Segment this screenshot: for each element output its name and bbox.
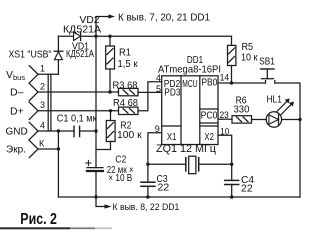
svg-text:D+: D+ <box>10 106 24 118</box>
svg-text:14: 14 <box>220 73 230 83</box>
ground arrow to pins 8,22 <box>96 197 112 209</box>
connector XS1 pin 1 chevron <box>29 66 58 83</box>
svg-text:× 10 В: × 10 В <box>108 172 132 184</box>
wire VD2 anode <box>58 35 73 37</box>
connector XS1 pin K chevron <box>29 140 58 157</box>
crystal ZQ1 <box>148 156 232 174</box>
svg-text:Vbus: Vbus <box>6 69 25 82</box>
wire pin 10 <box>218 135 232 164</box>
wire VCC rail <box>96 35 232 37</box>
svg-text:X1: X1 <box>167 131 177 143</box>
svg-text:4: 4 <box>156 73 161 83</box>
wire VCC arrow to pins 7,20,21 <box>96 14 115 36</box>
node C2 ground junction <box>94 195 97 198</box>
svg-text:R1: R1 <box>119 46 131 58</box>
wire connector body line b <box>50 74 52 131</box>
resistor R3 <box>119 88 139 95</box>
IC DD1 X1 cell <box>162 125 181 127</box>
svg-text:HL1: HL1 <box>267 94 283 106</box>
scan artifact bottom edge <box>0 227 70 229</box>
svg-text:1: 1 <box>40 64 45 74</box>
diode VD1 <box>54 36 63 60</box>
svg-text:PD3: PD3 <box>164 87 180 99</box>
wire SB1 to right branch <box>275 83 300 197</box>
svg-text:22: 22 <box>241 183 253 195</box>
svg-text:5: 5 <box>156 84 161 94</box>
node D+ junction <box>109 109 112 112</box>
svg-text:К выв. 7, 20, 21 DD1: К выв. 7, 20, 21 DD1 <box>118 11 210 23</box>
node LED junction <box>298 118 301 121</box>
svg-text:22: 22 <box>158 182 170 194</box>
svg-text:4: 4 <box>40 120 45 130</box>
svg-text:SB1: SB1 <box>259 56 275 68</box>
diode VD2 <box>74 32 96 41</box>
svg-text:2: 2 <box>40 81 45 91</box>
svg-text:XS1 "USB": XS1 "USB" <box>9 50 52 61</box>
svg-text:ATmega8-16PI: ATmega8-16PI <box>158 64 221 75</box>
node C1 junction <box>94 129 97 132</box>
svg-text:3: 3 <box>40 100 45 110</box>
node R5 pin14 junction <box>230 81 233 84</box>
svg-text:C1 0,1 мк: C1 0,1 мк <box>57 113 97 125</box>
connector XS1 pin 3 chevron <box>29 102 118 119</box>
svg-text:D–: D– <box>10 87 24 99</box>
svg-text:PB0: PB0 <box>201 76 217 88</box>
IC DD1 outer box <box>162 76 218 145</box>
node shield junction <box>57 147 60 150</box>
IC DD1 divider right <box>199 76 201 145</box>
svg-text:R3 68: R3 68 <box>113 79 138 91</box>
wire pin 23 <box>218 118 232 120</box>
svg-text:X2: X2 <box>204 131 214 143</box>
wire connector body line a <box>47 74 49 131</box>
wire R4 to pin 4 <box>138 82 162 111</box>
resistor R2 <box>96 111 115 150</box>
svg-text:9: 9 <box>155 124 160 134</box>
capacitor C1 <box>74 126 96 136</box>
resistor R5 <box>228 36 236 83</box>
connector XS1 pin 4 chevron <box>29 122 74 139</box>
ground rail <box>58 196 300 198</box>
capacitor C2 polarized <box>86 160 103 197</box>
svg-text:1,5 к: 1,5 к <box>118 58 138 70</box>
svg-text:10: 10 <box>220 126 229 136</box>
svg-text:Экр.: Экр. <box>6 145 26 156</box>
wire pin 14 <box>218 82 266 84</box>
capacitor C4 <box>225 164 239 197</box>
svg-text:К: К <box>39 138 45 148</box>
svg-text:PC0: PC0 <box>201 109 218 121</box>
capacitor C3 <box>141 164 155 197</box>
node crystal left junction <box>146 163 149 166</box>
node crystal right junction <box>230 163 233 166</box>
svg-text:330: 330 <box>234 103 250 115</box>
connector XS1 pin 2 chevron <box>29 83 118 100</box>
svg-text:10 к: 10 к <box>241 52 258 64</box>
IC DD1 PC0 cell <box>200 109 218 123</box>
wire R3 to pin 5 <box>138 91 162 93</box>
svg-text:MCU: MCU <box>182 78 197 90</box>
svg-text:ZQ1 12 МГц: ZQ1 12 МГц <box>156 143 217 155</box>
IC DD1 divider left <box>180 76 182 145</box>
node C3 ground junction <box>146 195 149 198</box>
wire ground column <box>57 131 59 197</box>
svg-text:К выв. 8, 22 DD1: К выв. 8, 22 DD1 <box>113 202 180 213</box>
resistor R6 <box>232 116 266 123</box>
wire VCC column <box>95 36 97 167</box>
svg-text:КД521А: КД521А <box>63 24 101 36</box>
resistor R1 <box>106 36 115 92</box>
svg-text:100 к: 100 к <box>117 129 142 141</box>
node D- junction <box>108 90 111 93</box>
IC DD1 X2 cell <box>200 125 218 127</box>
node GND pin4 junction <box>57 129 60 132</box>
resistor R4 <box>119 107 139 114</box>
svg-text:R4 68: R4 68 <box>113 97 138 109</box>
svg-text:Рис. 2: Рис. 2 <box>20 211 57 228</box>
LED HL1 <box>266 99 300 128</box>
node C4 ground junction <box>230 195 233 198</box>
svg-text:23: 23 <box>220 110 229 120</box>
pushbutton SB1 <box>261 69 275 83</box>
wire Vbus pin1 to VD1 anode <box>57 60 59 74</box>
wire pin 9 <box>148 133 162 165</box>
svg-text:GND: GND <box>6 127 28 138</box>
svg-text:КД521А: КД521А <box>66 49 94 60</box>
node VCC junction <box>94 35 111 38</box>
